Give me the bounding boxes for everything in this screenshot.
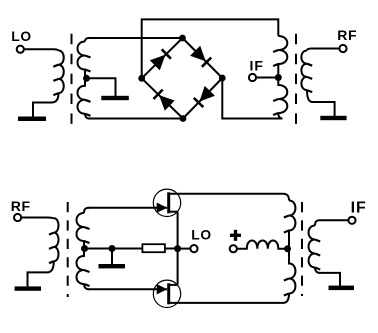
svg-text:RF: RF bbox=[337, 27, 357, 43]
svg-text:RF: RF bbox=[11, 198, 31, 214]
svg-text:LO: LO bbox=[191, 228, 211, 243]
svg-text:IF: IF bbox=[250, 57, 264, 73]
svg-text:LO: LO bbox=[11, 29, 31, 44]
svg-text:IF: IF bbox=[351, 200, 367, 217]
